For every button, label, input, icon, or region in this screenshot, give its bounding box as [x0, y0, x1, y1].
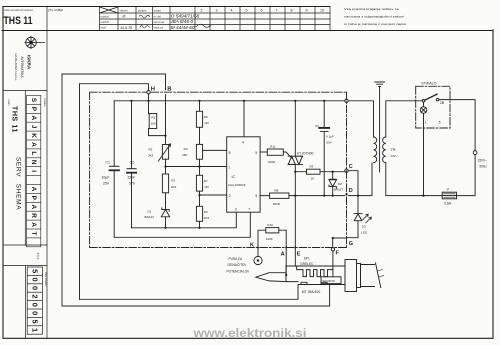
- svg-text:podpis: podpis: [138, 9, 147, 13]
- wire E down to heater: [294, 248, 296, 266]
- handwritten entries: [120, 14, 200, 31]
- svg-text:SP1: SP1: [304, 257, 310, 261]
- svg-text:2K5: 2K5: [148, 154, 154, 158]
- wire net H second rail and inner loop: [80, 84, 149, 300]
- svg-text:datum: datum: [120, 9, 128, 13]
- svg-text:J: J: [30, 125, 37, 129]
- svg-text:7: 7: [248, 208, 250, 212]
- copyright text block: [344, 7, 406, 26]
- svg-text:STIKALO: STIKALO: [421, 82, 436, 86]
- iron handle: [345, 260, 357, 292]
- trimmer R2: [165, 136, 167, 145]
- svg-text:R8: R8: [275, 188, 279, 192]
- svg-text:GRELEC: GRELEC: [300, 262, 314, 266]
- lower compartment MT 35A/100: [298, 282, 330, 306]
- node H feedthrough: [147, 91, 150, 94]
- svg-text:A: A: [30, 204, 37, 209]
- wire 2B to mains terminal: [439, 100, 475, 151]
- svg-text:200R: 200R: [268, 160, 276, 164]
- svg-text:8: 8: [229, 151, 231, 155]
- svg-text:PUŠA ZA: PUŠA ZA: [229, 256, 243, 261]
- svg-text:I: I: [30, 170, 37, 172]
- capacitor C3: [323, 101, 325, 196]
- svg-text:2: 2: [30, 294, 39, 298]
- svg-text:A: A: [30, 142, 37, 147]
- resistor R5: [199, 101, 201, 112]
- wire rail to secondary top: [348, 101, 373, 137]
- svg-text:POTENCIALOV: POTENCIALOV: [227, 270, 251, 274]
- signature scribbles: [139, 15, 211, 28]
- svg-text:7: 7: [276, 9, 278, 13]
- svg-text:560R: 560R: [273, 202, 281, 206]
- wire net B top rail and outer loop: [62, 74, 166, 306]
- wire C detour to secondary bottom: [348, 163, 372, 196]
- switch box STIKALO: [416, 86, 450, 128]
- svg-text:5: 5: [255, 194, 257, 198]
- capacitor C1: [113, 101, 115, 238]
- node K: [257, 247, 259, 249]
- svg-text:www.elektronik.si: www.elektronik.si: [192, 328, 306, 340]
- svg-text:C: C: [349, 164, 353, 170]
- svg-text:UAA 1000/2F: UAA 1000/2F: [228, 183, 246, 187]
- node rail feedthrough right: [345, 99, 348, 102]
- svg-text:2.6.1: 2.6.1: [36, 253, 40, 260]
- resistor R7: [199, 159, 201, 175]
- wire net B to compartment bottom: [62, 305, 330, 307]
- svg-text:R1: R1: [151, 115, 155, 119]
- node C feedthrough: [345, 169, 348, 172]
- svg-text:SERV: SERV: [15, 157, 22, 177]
- svg-text:D3: D3: [362, 225, 366, 229]
- svg-text:IC: IC: [232, 175, 236, 179]
- svg-text:5: 5: [246, 9, 248, 13]
- svg-text:25V: 25V: [103, 182, 110, 186]
- svg-text:6: 6: [261, 9, 263, 13]
- svg-text:100: 100: [151, 121, 156, 125]
- svg-text:ISKRA: ISKRA: [27, 55, 32, 70]
- diode D1: [162, 208, 169, 211]
- svg-text:BA157: BA157: [334, 188, 343, 192]
- svg-text:THS 11: THS 11: [10, 106, 17, 133]
- svg-text:25K: 25K: [182, 153, 187, 157]
- svg-text:risba številka: risba številka: [44, 272, 47, 286]
- switch contacts and lever: [422, 100, 425, 103]
- svg-text:9: 9: [255, 151, 257, 155]
- socket puša za izenačitev potencialov: [254, 256, 262, 264]
- wire pin7 to C1 bottom: [114, 212, 250, 237]
- svg-text:10µF: 10µF: [102, 176, 110, 180]
- ISKRA logo: [25, 36, 46, 49]
- svg-text:in risba je narisana z overjen: in risba je narisana z overjeni zapisi: [344, 22, 406, 26]
- lamp in switch: [423, 102, 425, 196]
- svg-text:oznaka: oznaka: [43, 98, 47, 107]
- wire net H to compartment: [80, 298, 299, 300]
- svg-text:8: 8: [291, 9, 293, 13]
- svg-text:O 5494/71/68: O 5494/71/68: [171, 14, 200, 19]
- svg-text:C3: C3: [315, 124, 319, 128]
- resistor R6: [199, 191, 201, 206]
- svg-text:C1: C1: [106, 161, 110, 165]
- svg-text:varovana z odgovarjajočimi zak: varovana z odgovarjajočimi zakoni: [344, 15, 404, 19]
- wire pin2 stub: [200, 194, 227, 196]
- svg-text:R: R: [30, 213, 37, 218]
- resistor R11: [267, 149, 283, 155]
- resistor R10: [258, 230, 286, 256]
- wire V+ rail: [114, 100, 345, 102]
- svg-text:IBA 8/46-0: IBA 8/46-0: [171, 19, 193, 24]
- svg-text:2: 2: [229, 194, 231, 198]
- wire R9 line to C: [295, 171, 345, 173]
- heater SP1 GRELEC: [297, 266, 333, 276]
- wire primary top to switch: [386, 101, 422, 137]
- transformer TR secondary winding: [374, 137, 377, 163]
- transformer TR ground: [375, 82, 385, 86]
- svg-text:4: 4: [242, 141, 244, 145]
- node F feedthrough: [331, 248, 334, 251]
- svg-text:4: 4: [231, 9, 233, 13]
- svg-text:2B: 2B: [440, 101, 445, 105]
- svg-text:št. del.: št. del.: [154, 15, 162, 19]
- svg-text:velja od: velja od: [154, 26, 164, 30]
- title block texts: [4, 8, 325, 30]
- svg-text:1M: 1M: [204, 185, 209, 189]
- svg-text:izdelal: izdelal: [101, 15, 109, 19]
- op-amp U1 IC UAA1000: [227, 137, 260, 212]
- svg-text:M 44/44-60: M 44/44-60: [171, 25, 195, 30]
- svg-text:R4: R4: [184, 147, 188, 151]
- svg-text:2K2: 2K2: [171, 185, 177, 189]
- svg-text:R5: R5: [204, 115, 208, 119]
- enclosure dashed box: [90, 92, 347, 247]
- svg-text:A: A: [30, 222, 37, 227]
- wire gate to triac: [283, 152, 292, 158]
- svg-text:1M: 1M: [204, 121, 209, 125]
- svg-text:1: 1: [228, 165, 230, 169]
- svg-text:Vsa pravica krajanja rešitev s: Vsa pravica krajanja rešitev so: [344, 7, 399, 11]
- fuse V 0.6A: [442, 192, 456, 199]
- svg-text:S: S: [30, 98, 37, 103]
- svg-text:AVTOMATIKA: AVTOMATIKA: [20, 56, 24, 78]
- svg-text:THS 11: THS 11: [4, 15, 33, 27]
- resistor R9: [307, 169, 321, 174]
- svg-text:prv. izdaja: prv. izdaja: [49, 8, 64, 12]
- wire A down to tip: [285, 248, 287, 275]
- node G wire to F: [333, 238, 347, 247]
- mains terminal 220V: [473, 151, 477, 155]
- svg-text:1K: 1K: [311, 177, 315, 181]
- svg-text:A: A: [30, 187, 37, 192]
- sidebar small band marks: [36, 253, 40, 260]
- left sidebar structure: [3, 31, 47, 339]
- svg-text:C2: C2: [130, 161, 134, 165]
- svg-text:KT 207/400: KT 207/400: [297, 152, 314, 156]
- svg-text:risal: risal: [101, 26, 107, 30]
- capacitor C2: [131, 101, 133, 228]
- diode D2: [332, 172, 334, 180]
- svg-text:P: P: [30, 107, 37, 112]
- svg-text:R3: R3: [171, 179, 175, 183]
- svg-text:odobril: odobril: [101, 20, 110, 24]
- svg-text:2K2: 2K2: [204, 216, 210, 220]
- svg-text:K: K: [30, 133, 37, 138]
- wire pin4: [243, 101, 245, 137]
- svg-text:0.1µF: 0.1µF: [326, 134, 334, 138]
- svg-text:G: G: [349, 241, 353, 247]
- svg-text:3: 3: [216, 9, 218, 13]
- svg-text:9: 9: [306, 9, 308, 13]
- sidebar THS 11 / SERV SHEMA rotated: [7, 98, 47, 210]
- resistor R1: [149, 114, 152, 129]
- svg-text:R11: R11: [270, 144, 276, 148]
- svg-text:N: N: [30, 160, 37, 165]
- svg-text:E: E: [297, 252, 301, 258]
- svg-text:IZENAČITEV: IZENAČITEV: [228, 262, 248, 267]
- svg-text:R9: R9: [310, 165, 314, 169]
- SPAJKALNI APARAT letter boxes: [27, 96, 41, 247]
- svg-text:izdaja: izdaja: [154, 9, 162, 13]
- svg-text:K: K: [250, 242, 254, 248]
- svg-text:A: A: [281, 252, 285, 258]
- LED D3: [357, 196, 359, 214]
- svg-text:D: D: [349, 188, 353, 194]
- sensor box SENZOR: [321, 277, 341, 284]
- svg-text:R10: R10: [267, 223, 273, 227]
- svg-text:5: 5: [30, 269, 39, 273]
- triac Q1 KT207/400: [294, 101, 296, 156]
- svg-text:0: 0: [30, 278, 39, 282]
- wire bottom secondary rail pin5 R8: [260, 195, 358, 197]
- svg-text:1: 1: [425, 120, 427, 124]
- svg-text:3: 3: [235, 208, 237, 212]
- svg-text:100K: 100K: [266, 237, 273, 241]
- svg-text:50Hz: 50Hz: [479, 165, 487, 169]
- svg-text:BAS13: BAS13: [145, 215, 155, 219]
- ISKRA AVTOMATIKA LJUBLJANA rotated text: [14, 53, 31, 81]
- resistor R4: [199, 127, 201, 144]
- svg-text:22nF: 22nF: [128, 176, 136, 180]
- svg-text:2: 2: [201, 9, 203, 13]
- svg-text:R6: R6: [204, 210, 208, 214]
- svg-text:63V: 63V: [326, 140, 331, 144]
- svg-text:0: 0: [30, 303, 39, 307]
- svg-text:SHEMA: SHEMA: [15, 184, 22, 210]
- svg-text:0: 0: [30, 311, 39, 315]
- svg-text:1: 1: [30, 328, 39, 332]
- svg-text:A: A: [30, 115, 37, 120]
- soldering iron body: [286, 266, 345, 286]
- soldering iron tip: [256, 273, 286, 282]
- svg-text:TR: TR: [391, 148, 396, 152]
- svg-text:P: P: [30, 196, 37, 201]
- svg-text:5: 5: [439, 120, 441, 124]
- wire F to sensor: [332, 251, 334, 277]
- node E: [294, 247, 296, 249]
- resistor R3: [162, 174, 168, 193]
- title block top band: [47, 7, 330, 31]
- svg-text:zamenja: zamenja: [154, 20, 165, 24]
- svg-text:57V: 57V: [129, 182, 136, 186]
- wire pin9 to R11: [260, 151, 267, 153]
- svg-text:L: L: [30, 151, 37, 155]
- svg-text:5: 5: [30, 320, 39, 324]
- svg-text:LED: LED: [361, 231, 368, 235]
- drawing number boxes 50020051: [27, 267, 47, 334]
- node A: [285, 247, 287, 249]
- svg-text:MT 35A/100: MT 35A/100: [302, 290, 321, 294]
- resistor R8: [270, 193, 289, 198]
- svg-text:lista označenih dokum.: lista označenih dokum.: [5, 8, 35, 12]
- svg-text:0: 0: [30, 286, 39, 290]
- wire bottom rail (C2 D1 R6 to pin3): [132, 212, 237, 228]
- wire primary bottom to fuse: [386, 163, 442, 196]
- svg-text:LJUBLJANA n.sol.o.: LJUBLJANA n.sol.o.: [14, 53, 18, 81]
- svg-text:24V~: 24V~: [390, 154, 397, 158]
- wire pin8 stub: [203, 149, 227, 151]
- wire pin1 line: [166, 166, 227, 168]
- svg-text:0.6A: 0.6A: [444, 202, 452, 206]
- transformer core: [379, 86, 381, 172]
- svg-text:D2: D2: [338, 182, 342, 186]
- svg-text:R7: R7: [204, 179, 208, 183]
- svg-text:14.5.78: 14.5.78: [120, 26, 132, 30]
- transformer TR primary winding: [383, 137, 386, 163]
- svg-text:T: T: [30, 231, 37, 235]
- svg-text:10: 10: [320, 9, 324, 13]
- svg-text:D1: D1: [148, 210, 152, 214]
- svg-text:R2: R2: [149, 148, 153, 152]
- svg-text:220V~: 220V~: [478, 158, 487, 162]
